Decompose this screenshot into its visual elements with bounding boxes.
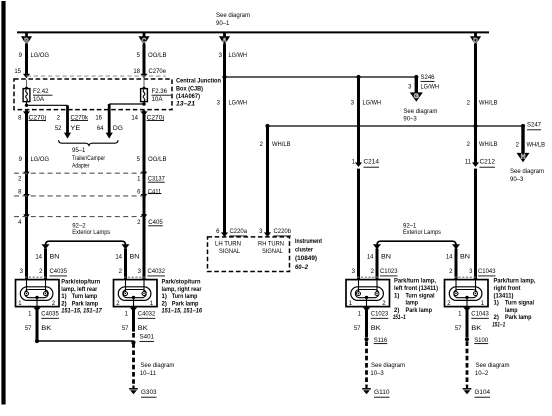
svg-text:Central Junction: Central Junction <box>176 79 221 85</box>
svg-text:3: 3 <box>469 269 473 275</box>
wire: BN stub into rear-left lamp pin 2 <box>44 249 47 280</box>
connector C3137 in-line, pins 2 / 1 <box>23 172 29 177</box>
svg-text:SIGNAL: SIGNAL <box>262 249 284 255</box>
wire B segment LG/OG (circuit 9) from CJB to rear lamp left <box>25 111 28 280</box>
svg-text:1: 1 <box>28 311 32 317</box>
svg-text:8: 8 <box>18 189 22 195</box>
svg-text:Instrument: Instrument <box>295 239 322 245</box>
svg-text:Turn signal: Turn signal <box>505 301 534 307</box>
lamp rear-right park/stop/turn: housing box <box>114 280 158 307</box>
ground G110 <box>362 388 371 390</box>
svg-text:Park/stop/turn: Park/stop/turn <box>61 279 100 285</box>
svg-text:C405: C405 <box>148 220 163 226</box>
connector C270j marks below CJB, pins 8 / 14 <box>23 111 30 116</box>
svg-text:Park/stop/turn: Park/stop/turn <box>162 279 201 285</box>
svg-text:F2.42: F2.42 <box>33 89 49 95</box>
svg-text:5: 5 <box>137 157 141 163</box>
svg-text:10A: 10A <box>152 97 163 103</box>
svg-text:See diagram: See diagram <box>403 109 437 115</box>
svg-text:S116: S116 <box>374 338 388 344</box>
wire: WH/LB (circuit 2) drop to instrument cluster RH turn <box>266 126 269 233</box>
svg-text:lamp: lamp <box>505 308 518 314</box>
connector arrow B (from diagram 90-1) <box>25 33 28 37</box>
svg-text:2: 2 <box>137 220 141 226</box>
svg-text:lamp, left rear: lamp, left rear <box>61 287 98 293</box>
svg-text:2): 2) <box>394 308 399 314</box>
wire: front-left lamp ground lead BK (circuit 57), connector C1023 pin 1 <box>365 307 368 337</box>
svg-text:14: 14 <box>131 115 138 121</box>
svg-text:(13411): (13411) <box>494 293 514 299</box>
wire: rear ground tie line to splice S401 <box>37 340 134 342</box>
svg-text:LG/OG: LG/OG <box>31 53 50 59</box>
connector C405 in-line, pins 4 / 2 <box>23 214 29 219</box>
svg-text:16: 16 <box>95 115 102 121</box>
svg-text:95–1: 95–1 <box>72 148 86 154</box>
svg-text:BN: BN <box>130 255 140 261</box>
svg-text:Park lamp: Park lamp <box>72 301 99 307</box>
svg-text:C214: C214 <box>364 160 380 166</box>
wire: BN stub into front-right lamp pin 2 <box>455 249 458 280</box>
svg-text:H: H <box>521 154 526 161</box>
svg-text:D: D <box>473 37 478 44</box>
svg-text:right front: right front <box>494 286 521 292</box>
svg-text:BN: BN <box>50 255 60 261</box>
wire: LG/WH (circuit 3) from junction down to front-left lamp <box>357 77 360 163</box>
wire: BN stub into front-left lamp pin 2 <box>376 249 379 280</box>
svg-text:1): 1) <box>61 294 66 300</box>
svg-text:90–1: 90–1 <box>216 21 230 27</box>
svg-text:Park lamp: Park lamp <box>172 301 199 307</box>
svg-text:C1043: C1043 <box>478 269 496 275</box>
wire C segment OG/LB (circuit 5) from connector C to CJB <box>143 44 146 74</box>
svg-text:2): 2) <box>494 315 499 321</box>
svg-text:Park lamp: Park lamp <box>505 315 532 321</box>
svg-text:9: 9 <box>19 157 23 163</box>
wire: rear-left lamp ground lead BK (circuit 57), connector C4035 pin 1 <box>36 307 39 341</box>
svg-text:4: 4 <box>18 220 22 226</box>
ground G303 <box>129 388 138 390</box>
connector C212 in-line, pin 11 <box>472 162 479 167</box>
svg-text:(14A067): (14A067) <box>176 94 200 100</box>
svg-text:WH/LB: WH/LB <box>527 143 546 149</box>
svg-text:64: 64 <box>97 126 104 132</box>
svg-text:1): 1) <box>162 294 167 300</box>
splice S100 <box>465 337 469 341</box>
svg-text:See diagram: See diagram <box>476 363 510 369</box>
lamp rear-right park/stop/turn: dual filament bulb symbol <box>118 287 151 301</box>
svg-text:C4035: C4035 <box>41 311 59 317</box>
svg-text:14: 14 <box>367 255 374 261</box>
svg-text:Turn lamp: Turn lamp <box>72 294 98 300</box>
svg-text:(10849): (10849) <box>295 256 317 262</box>
svg-text:DG: DG <box>113 126 123 132</box>
lamp rear-left park/stop/turn: dual filament bulb symbol <box>20 287 53 301</box>
splice S116 <box>364 337 368 341</box>
wire: front-right lamp ground lead BK (circuit 57), connector C1043 pin 1 <box>466 307 469 337</box>
svg-text:2: 2 <box>39 269 43 275</box>
svg-text:3: 3 <box>138 269 142 275</box>
node: junction WH/LB on wire D <box>473 124 477 128</box>
svg-text:6: 6 <box>216 229 220 235</box>
svg-text:See diagram: See diagram <box>140 363 174 369</box>
svg-text:S100: S100 <box>474 338 489 344</box>
svg-text:2): 2) <box>162 301 167 307</box>
svg-text:151–1: 151–1 <box>393 315 407 321</box>
svg-text:BK: BK <box>138 326 148 332</box>
svg-text:3: 3 <box>217 101 221 107</box>
node: junction of LG/WH branch on wire A <box>222 75 226 79</box>
svg-text:C270e: C270e <box>149 69 167 75</box>
svg-text:OG/LB: OG/LB <box>148 53 167 59</box>
svg-text:C: C <box>142 37 147 44</box>
svg-text:15: 15 <box>14 69 21 75</box>
lamp front-right park/turn: housing box <box>445 280 489 307</box>
svg-text:C212: C212 <box>480 160 496 166</box>
svg-text:151–1: 151–1 <box>492 322 506 328</box>
splice S247 with lead to diagram 90-3 <box>521 124 525 128</box>
svg-text:2: 2 <box>18 176 22 182</box>
svg-text:S401: S401 <box>140 334 155 340</box>
svg-text:14: 14 <box>115 255 122 261</box>
connector arrow C (from diagram 90-1) <box>143 33 146 37</box>
svg-text:C220a: C220a <box>230 229 248 235</box>
wire: fuse F2.36 output branch to C270k pin 16 <box>143 102 145 104</box>
svg-text:See diagram: See diagram <box>216 13 250 19</box>
svg-text:5: 5 <box>137 53 141 59</box>
svg-text:10A: 10A <box>33 97 44 103</box>
wire D segment WH/LB (circuit 2) from connector D to front-right lamp <box>474 44 477 163</box>
svg-text:151–15, 151–17: 151–15, 151–17 <box>61 309 102 315</box>
svg-text:G303: G303 <box>141 390 157 396</box>
svg-text:WH/LB: WH/LB <box>479 101 498 107</box>
svg-text:57: 57 <box>354 326 361 332</box>
svg-text:10–11: 10–11 <box>140 371 157 377</box>
svg-text:C4032: C4032 <box>148 269 166 275</box>
svg-text:cluster: cluster <box>295 248 314 254</box>
svg-text:G110: G110 <box>374 390 390 396</box>
wire: WH/LB bus from wire D to RH turn signal and S247 <box>268 125 524 127</box>
svg-text:57: 57 <box>122 326 129 332</box>
svg-text:2: 2 <box>449 269 453 275</box>
svg-text:WH/LB: WH/LB <box>479 142 498 148</box>
svg-text:1: 1 <box>137 176 141 182</box>
svg-text:LH TURN: LH TURN <box>215 241 241 247</box>
wire B segment LG/OG (circuit 9) from connector B to CJB <box>25 44 28 74</box>
svg-text:2: 2 <box>516 143 520 149</box>
svg-text:C411: C411 <box>148 189 162 195</box>
svg-text:LG/OG: LG/OG <box>31 157 50 163</box>
svg-text:RH TURN: RH TURN <box>258 241 284 247</box>
wire: rear-right lamp ground lead BK (circuit 57), connector C4032 pin 1 <box>132 307 135 332</box>
svg-text:Exterior Lamps: Exterior Lamps <box>72 230 110 236</box>
svg-text:1: 1 <box>358 311 362 317</box>
svg-text:1: 1 <box>458 311 462 317</box>
svg-text:lamp: lamp <box>406 301 419 307</box>
svg-text:C4035: C4035 <box>50 269 68 275</box>
svg-text:BK: BK <box>371 326 381 332</box>
node: junction WH/LB at RH turn drop <box>265 124 269 128</box>
connector C411 in-line, pins 8 / 6 <box>23 194 29 199</box>
svg-text:lamp, right rear: lamp, right rear <box>162 287 203 293</box>
connector arrow A (from diagram 90-1) <box>223 33 226 37</box>
svg-text:57: 57 <box>455 326 462 332</box>
svg-text:10–3: 10–3 <box>370 371 384 377</box>
svg-text:Trailer/Camper: Trailer/Camper <box>72 156 105 162</box>
svg-text:S247: S247 <box>527 122 542 128</box>
svg-text:OG/LB: OG/LB <box>148 157 167 163</box>
svg-text:A: A <box>222 37 227 44</box>
connector C4032 at rear-right park/stop/turn top, pins 2 / 3 <box>124 276 146 278</box>
svg-text:92–2: 92–2 <box>72 223 86 229</box>
wire: 92-2 exterior lamps BN feed bus (rear) <box>46 241 126 248</box>
svg-text:18: 18 <box>133 69 140 75</box>
svg-text:Turn signal: Turn signal <box>406 293 435 299</box>
connector C1043 at front-right park/turn top, pins 2 / 3 <box>455 276 478 278</box>
svg-text:2: 2 <box>119 269 123 275</box>
svg-text:C1043: C1043 <box>471 311 489 317</box>
svg-text:57: 57 <box>25 326 32 332</box>
svg-text:BN: BN <box>381 255 391 261</box>
svg-text:LG/WH: LG/WH <box>229 53 248 59</box>
svg-text:BN: BN <box>460 255 470 261</box>
svg-text:3: 3 <box>20 269 24 275</box>
lamp front-left park/turn: dual filament bulb symbol <box>351 287 384 301</box>
svg-text:90–3: 90–3 <box>510 177 524 183</box>
svg-text:LG/WH: LG/WH <box>363 101 382 107</box>
svg-text:BK: BK <box>471 326 481 332</box>
connector C1023 at front-left park/turn top, pins 3 / 2 <box>357 276 379 278</box>
svg-text:1: 1 <box>125 311 129 317</box>
svg-text:YE: YE <box>70 126 80 132</box>
splice S401 <box>131 340 135 344</box>
connector arrow D (from diagram 90-1) <box>474 33 477 37</box>
svg-text:13–21: 13–21 <box>176 101 196 107</box>
svg-text:Park lamp: Park lamp <box>406 308 433 314</box>
svg-text:C1023: C1023 <box>380 269 398 275</box>
svg-text:C3137: C3137 <box>148 176 166 182</box>
brace: 95-1 Trailer/Camper Adapter group <box>59 140 119 146</box>
svg-text:60–2: 60–2 <box>295 265 309 271</box>
svg-text:Exterior Lamps: Exterior Lamps <box>403 230 441 236</box>
wire: BN stub into rear-right lamp pin 2 <box>124 249 127 280</box>
svg-text:14: 14 <box>446 255 453 261</box>
svg-text:See diagram: See diagram <box>510 169 544 175</box>
svg-text:3: 3 <box>352 269 356 275</box>
lamp rear-left park/stop/turn: housing box <box>16 280 60 307</box>
wire: ground wire from S116 to G110 (dashed) <box>365 341 368 385</box>
svg-text:3: 3 <box>219 53 223 59</box>
svg-text:3: 3 <box>259 229 263 235</box>
svg-text:Turn lamp: Turn lamp <box>172 294 198 300</box>
splice S246 with lead to diagram 90-3 <box>414 75 418 79</box>
wire: 92-1 exterior lamps BN feed bus (front) <box>377 241 456 248</box>
svg-text:F2.36: F2.36 <box>152 89 168 95</box>
svg-text:8: 8 <box>18 115 22 121</box>
svg-text:G: G <box>414 93 419 100</box>
central junction box CJB dashed outline <box>14 79 172 110</box>
connector C4035 at rear-left park/stop/turn top, pins 3 / 2 <box>25 276 47 278</box>
svg-text:1): 1) <box>494 301 499 307</box>
lamp front-left park/turn: housing box <box>346 280 390 307</box>
ground G104 <box>463 388 472 390</box>
wire: LG/WH branch bus to S246 and front lamp feed <box>225 76 417 78</box>
svg-text:Adapter: Adapter <box>72 163 90 169</box>
svg-text:LG/WH: LG/WH <box>421 85 440 91</box>
svg-text:S246: S246 <box>421 75 436 81</box>
svg-text:2: 2 <box>57 115 61 121</box>
svg-text:SIGNAL: SIGNAL <box>219 249 241 255</box>
svg-text:C4032: C4032 <box>138 311 156 317</box>
fuse F2.42 10A <box>26 80 28 89</box>
svg-text:WH/LB: WH/LB <box>272 142 291 148</box>
svg-text:1): 1) <box>394 293 399 299</box>
wire: ground wire from S100 to G104 (dashed) <box>466 341 469 385</box>
svg-text:2: 2 <box>467 142 471 148</box>
svg-text:14: 14 <box>35 255 42 261</box>
svg-text:6: 6 <box>137 189 141 195</box>
svg-text:9: 9 <box>19 53 23 59</box>
svg-text:151–15, 151–16: 151–15, 151–16 <box>162 309 203 315</box>
svg-text:90–3: 90–3 <box>403 116 417 122</box>
svg-text:2: 2 <box>260 142 264 148</box>
svg-text:2: 2 <box>467 101 471 107</box>
wire C segment OG/LB (circuit 5) from CJB to rear lamp right <box>143 111 146 280</box>
wire: ground wire from S401 to G303 (dashed) <box>132 343 135 385</box>
instrument cluster (10849) dashed box <box>208 237 290 272</box>
svg-text:3: 3 <box>351 101 355 107</box>
connector C270e marks on wires B and C, pins 15 / 18 <box>23 74 30 78</box>
svg-text:LG/WH: LG/WH <box>229 101 248 107</box>
svg-text:G104: G104 <box>475 390 491 396</box>
svg-text:92–1: 92–1 <box>403 223 417 229</box>
svg-text:C220b: C220b <box>274 229 292 235</box>
wire: fuse F2.42 output branch to C270k pin 2 <box>26 102 28 106</box>
svg-text:B: B <box>24 37 29 44</box>
wire A segment LG/WH (circuit 3) from connector A to instrument cluster <box>223 44 226 233</box>
svg-text:left front (13411): left front (13411) <box>394 286 438 292</box>
svg-text:11: 11 <box>465 160 472 166</box>
svg-text:See diagram: See diagram <box>371 363 405 369</box>
fuse F2.36 10A <box>143 80 145 89</box>
connector C214 in-line, pin 1 <box>355 162 362 167</box>
svg-text:BK: BK <box>41 326 51 332</box>
lamp front-right park/turn: dual filament bulb symbol <box>449 287 482 301</box>
node: junction LG/WH at front-left lamp drop <box>356 75 360 79</box>
svg-text:2): 2) <box>61 301 66 307</box>
svg-text:Park/turn lamp,: Park/turn lamp, <box>394 279 436 285</box>
wire: top feed bus from diagram 90-1 <box>17 31 489 33</box>
svg-text:10–2: 10–2 <box>475 371 489 377</box>
svg-text:52: 52 <box>55 126 62 132</box>
svg-text:C1023: C1023 <box>371 311 389 317</box>
svg-text:3: 3 <box>408 85 412 91</box>
svg-text:Park/turn lamp,: Park/turn lamp, <box>494 279 536 285</box>
svg-text:1: 1 <box>352 160 356 166</box>
svg-text:2: 2 <box>371 269 375 275</box>
svg-text:Box (CJB): Box (CJB) <box>176 86 203 92</box>
